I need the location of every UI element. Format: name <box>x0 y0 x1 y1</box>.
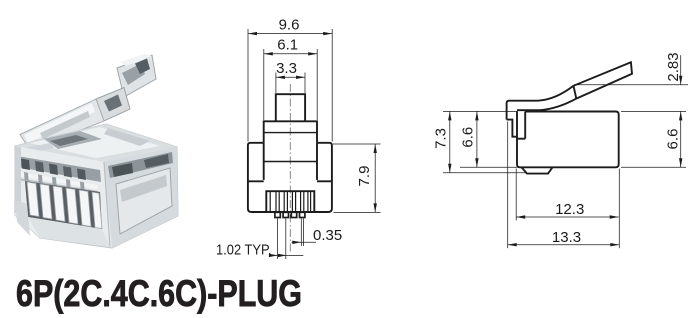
svg-text:3.3: 3.3 <box>276 60 297 77</box>
svg-text:1.02 TYP.: 1.02 TYP. <box>216 241 272 258</box>
svg-text:13.3: 13.3 <box>552 229 581 246</box>
svg-text:6.1: 6.1 <box>277 36 298 53</box>
svg-text:12.3: 12.3 <box>555 201 584 218</box>
svg-text:2.83: 2.83 <box>665 52 682 81</box>
svg-text:6.6: 6.6 <box>460 127 477 148</box>
svg-text:7.3: 7.3 <box>433 128 450 149</box>
svg-text:6P(2C.4C.6C)-PLUG: 6P(2C.4C.6C)-PLUG <box>16 272 302 314</box>
svg-text:0.35: 0.35 <box>313 227 342 244</box>
svg-text:9.6: 9.6 <box>279 17 300 34</box>
svg-text:7.9: 7.9 <box>356 166 373 187</box>
svg-text:6.6: 6.6 <box>665 129 682 150</box>
